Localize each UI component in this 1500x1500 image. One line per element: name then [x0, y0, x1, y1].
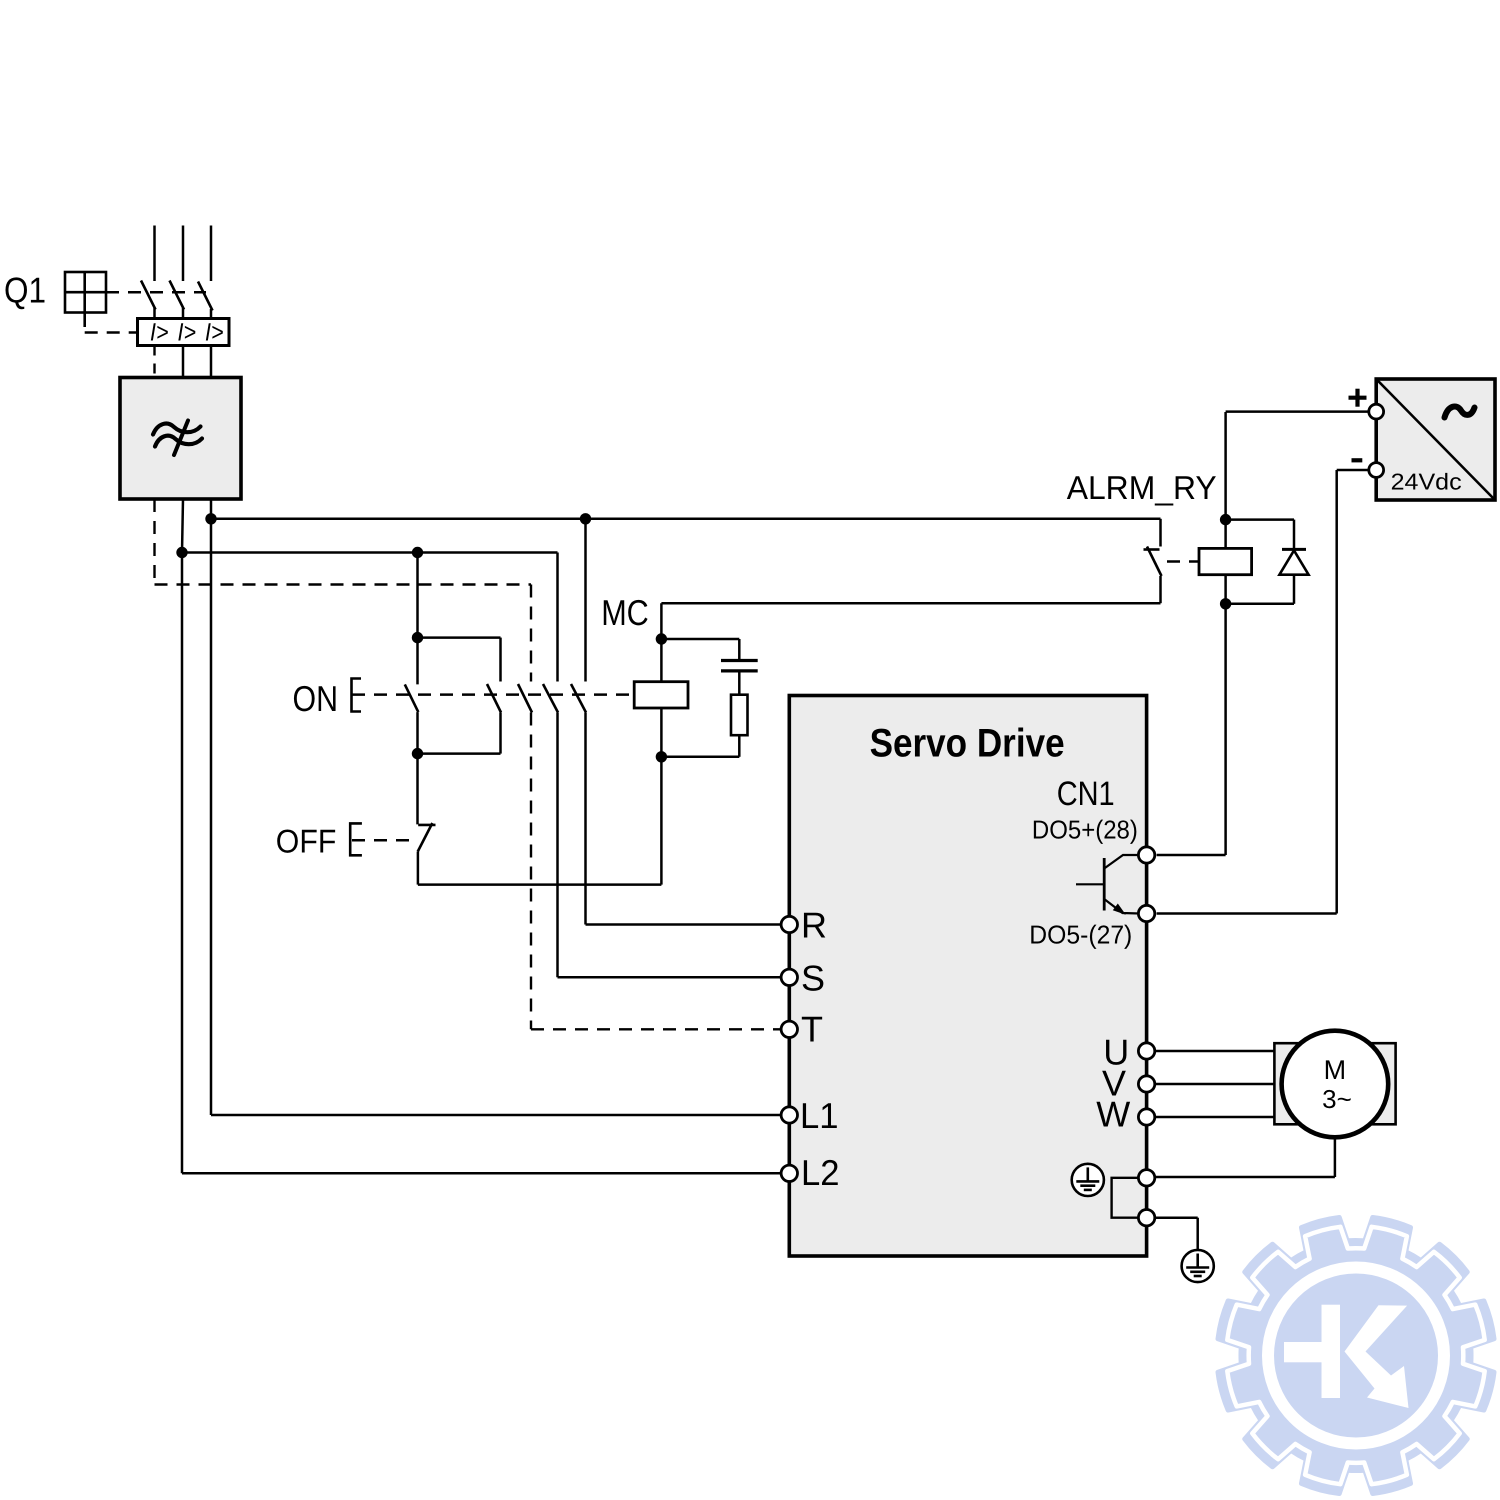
svg-text:R: R [801, 905, 827, 946]
svg-text:T: T [801, 1009, 823, 1050]
svg-text:Q1: Q1 [4, 270, 46, 311]
svg-text:CN1: CN1 [1057, 775, 1115, 813]
svg-text:3~: 3~ [1322, 1084, 1352, 1114]
svg-text:L1: L1 [800, 1095, 839, 1136]
svg-text:I>: I> [178, 319, 197, 347]
svg-text:W: W [1096, 1093, 1130, 1134]
svg-text:Servo Drive: Servo Drive [870, 722, 1065, 766]
svg-text:I>: I> [150, 319, 169, 347]
svg-text:24Vdc: 24Vdc [1391, 469, 1462, 495]
svg-text:ON: ON [293, 678, 339, 719]
svg-text:DO5-(27): DO5-(27) [1029, 920, 1132, 950]
svg-text:M: M [1324, 1055, 1347, 1085]
svg-text:L2: L2 [801, 1152, 840, 1193]
svg-text:ALRM_RY: ALRM_RY [1067, 469, 1217, 506]
svg-text:DO5+(28): DO5+(28) [1032, 815, 1138, 845]
svg-text:I>: I> [205, 319, 224, 347]
svg-text:S: S [801, 957, 825, 998]
svg-text:OFF: OFF [276, 822, 337, 859]
svg-text:MC: MC [601, 592, 649, 633]
